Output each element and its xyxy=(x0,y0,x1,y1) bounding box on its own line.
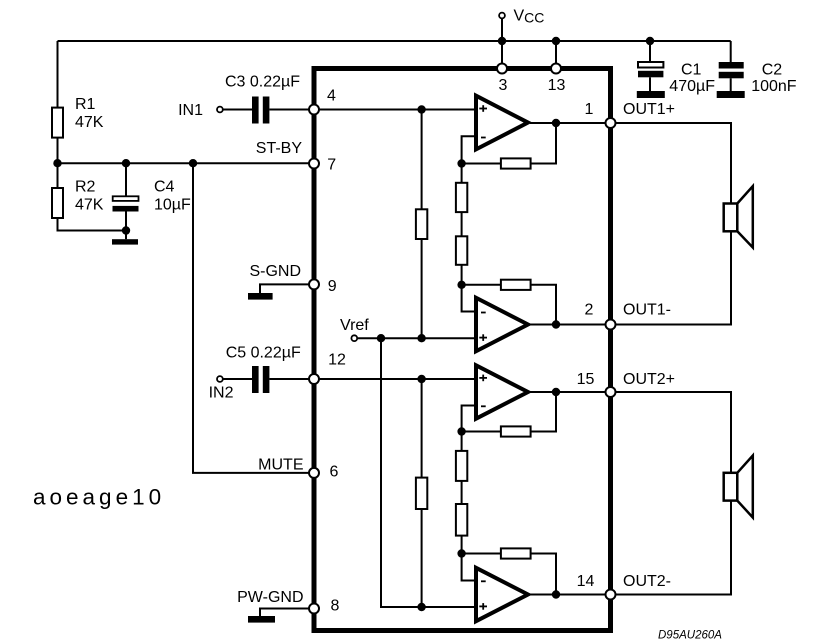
internal resistor (divider upper) xyxy=(456,183,467,212)
junction xyxy=(377,334,385,342)
wire: bias branch to Vref line xyxy=(421,509,423,607)
wire: Vref rail down to op-amp 4 + input xyxy=(381,338,476,607)
wire: node to feedback resistor xyxy=(462,553,501,555)
IN2 terminal xyxy=(217,376,223,382)
svg-text:MUTE: MUTE xyxy=(258,457,303,474)
wire: top supply rail xyxy=(58,40,731,42)
wire: op-amp 3 output to pin 15 xyxy=(530,391,606,393)
svg-text:9: 9 xyxy=(328,278,337,295)
ground xyxy=(717,91,745,98)
pin 7 xyxy=(309,157,336,174)
svg-text:C2: C2 xyxy=(762,62,783,79)
wire: pin 12 to op-amp 3 + input xyxy=(319,378,476,380)
svg-text:15: 15 xyxy=(577,371,595,388)
wire: MUTE net from ST-BY line junction to pin 6 xyxy=(193,163,309,473)
junction xyxy=(417,603,425,611)
svg-text:IN2: IN2 xyxy=(209,385,234,402)
svg-text:13: 13 xyxy=(548,77,566,94)
junction xyxy=(189,159,197,167)
internal resistor (divider lower) xyxy=(456,504,467,536)
wire: rail to pin 3 xyxy=(501,41,503,64)
pin 12 xyxy=(309,352,346,385)
wire: feedback resistor to - node xyxy=(462,163,501,165)
op-amp 4 xyxy=(476,568,528,621)
junction xyxy=(417,334,425,342)
wire: feedback resistor to op-amp 4 output xyxy=(531,554,556,595)
svg-text:OUT2-: OUT2- xyxy=(623,573,671,590)
op-amp 1 xyxy=(476,96,528,150)
wire: op-amp 1 output to pin 1 xyxy=(530,122,606,124)
wire: node to feedback resistor xyxy=(462,284,501,286)
junction xyxy=(457,549,465,557)
svg-text:ST-BY: ST-BY xyxy=(256,140,303,157)
ground xyxy=(112,239,138,244)
wire: IN2 to C5 xyxy=(223,378,252,380)
wire: R1 to ST-BY node xyxy=(57,138,59,164)
resistor R2 xyxy=(52,163,104,218)
svg-text:C1: C1 xyxy=(681,62,702,79)
svg-text:4: 4 xyxy=(327,88,336,105)
wire: input 1 bias branch top xyxy=(421,110,423,210)
junction xyxy=(457,427,465,435)
junction xyxy=(646,37,654,45)
junction xyxy=(552,119,560,127)
internal feedback resistor (op-amp 2) xyxy=(501,280,531,290)
wire: feedback resistor to op-amp 2 output xyxy=(531,285,556,325)
capacitor C2 xyxy=(719,41,797,95)
wire: IN1 to C3 xyxy=(223,109,252,111)
wire: rail down to R1 xyxy=(57,41,59,108)
op-amp 3 xyxy=(476,365,528,418)
wire: pin 1 to speaker 1 top xyxy=(615,123,731,204)
svg-text:C5 0.22µF: C5 0.22µF xyxy=(226,345,301,362)
svg-text:100nF: 100nF xyxy=(751,78,797,95)
junction xyxy=(122,159,130,167)
pin 1 xyxy=(585,101,616,128)
ground xyxy=(637,91,665,98)
pin 4 xyxy=(309,88,336,115)
capacitor C3 xyxy=(225,74,300,124)
wire: op-amp 1 - input to feedback node xyxy=(462,136,476,163)
junction xyxy=(53,159,61,167)
wire: pin 4 to op-amp 1 + input xyxy=(319,109,476,111)
wire: gain divider upper (channel 2) xyxy=(461,432,463,451)
speaker LS2 xyxy=(724,456,753,518)
op-amp 2 xyxy=(476,298,528,352)
svg-text:14: 14 xyxy=(577,573,595,590)
svg-text:10µF: 10µF xyxy=(154,197,191,214)
capacitor C4 xyxy=(113,163,192,239)
wire: speaker 2 bottom to pin 14 xyxy=(615,501,731,595)
wire: bias branch to Vref line xyxy=(421,239,423,338)
svg-text:R2: R2 xyxy=(75,179,96,196)
speaker LS1 xyxy=(724,186,753,247)
wire: op-amp 4 output to pin 14 xyxy=(530,594,606,596)
junction xyxy=(552,388,560,396)
pin 14 xyxy=(577,573,616,600)
wire: gain divider upper xyxy=(461,164,463,183)
wire: op-amp 3 - input to feedback node xyxy=(462,406,476,432)
pin 8 xyxy=(309,598,340,615)
pin 9 xyxy=(309,278,337,295)
wire: ST-BY line to pin 7 xyxy=(58,162,310,164)
svg-text:IN1: IN1 xyxy=(178,102,203,119)
svg-text:3: 3 xyxy=(499,77,508,94)
wire: pin 9 to signal ground xyxy=(260,284,310,293)
wire: op-amp 2 output to pin 2 xyxy=(530,324,606,326)
wire: rail to pin 13 xyxy=(555,41,557,64)
IN1 terminal xyxy=(217,107,223,113)
svg-text:6: 6 xyxy=(330,464,339,481)
wire: output down to feedback resistor xyxy=(531,392,556,432)
svg-text:1: 1 xyxy=(585,101,594,118)
pin 13 xyxy=(548,64,566,95)
wire xyxy=(461,212,463,236)
svg-text:12: 12 xyxy=(328,352,346,369)
wire: node down to op-amp 4 - input xyxy=(462,554,476,581)
wire: node down to op-amp 2 - input xyxy=(462,285,476,312)
wire: feedback resistor to - node xyxy=(462,431,501,433)
capacitor C1 xyxy=(638,41,715,95)
wire xyxy=(461,481,463,504)
junction xyxy=(122,226,130,234)
junction xyxy=(552,37,560,45)
IC body (amplifier block) xyxy=(314,69,611,631)
svg-text:7: 7 xyxy=(327,157,336,174)
wire xyxy=(461,536,463,554)
internal feedback resistor (op-amp 1) xyxy=(501,158,531,168)
wire: output down to feedback resistor xyxy=(531,123,556,164)
internal resistor (divider lower) xyxy=(456,236,467,264)
svg-text:PW-GND: PW-GND xyxy=(237,589,303,606)
svg-text:S-GND: S-GND xyxy=(249,263,301,280)
pin 2 xyxy=(585,302,616,330)
internal resistor (divider upper) xyxy=(456,451,467,481)
svg-text:C3 0.22µF: C3 0.22µF xyxy=(225,74,300,91)
wire: speaker 1 bottom to pin 2 xyxy=(615,231,731,324)
wire: C5 to pin 12 xyxy=(269,378,309,380)
junction xyxy=(417,375,425,383)
svg-text:47K: 47K xyxy=(75,114,104,131)
svg-text:C4: C4 xyxy=(154,179,175,196)
svg-text:Vref: Vref xyxy=(340,317,369,334)
svg-text:OUT1+: OUT1+ xyxy=(623,101,675,118)
svg-text:VCC: VCC xyxy=(514,8,545,26)
pin 15 xyxy=(577,371,616,397)
svg-text:47K: 47K xyxy=(75,197,104,214)
svg-text:aoeage10: aoeage10 xyxy=(33,485,165,510)
junction xyxy=(552,320,560,328)
junction xyxy=(498,37,506,45)
svg-text:2: 2 xyxy=(585,302,594,319)
ground PW-GND xyxy=(237,589,303,623)
pin 3 xyxy=(497,64,508,95)
VCC terminal xyxy=(499,8,544,26)
junction xyxy=(457,281,465,289)
junction xyxy=(417,105,425,113)
pin 6 xyxy=(309,464,339,481)
wire: Vref to op-amp 2 + input xyxy=(358,337,476,339)
node Vref xyxy=(340,317,369,341)
wire: R2 bottom to C4 bottom xyxy=(58,218,127,231)
ground S-GND xyxy=(248,263,301,300)
svg-text:8: 8 xyxy=(331,598,340,615)
internal resistor (IN2 to Vref) xyxy=(416,478,427,509)
svg-text:470µF: 470µF xyxy=(669,78,715,95)
svg-text:OUT1-: OUT1- xyxy=(623,302,671,319)
junction xyxy=(457,159,465,167)
junction xyxy=(552,590,560,598)
internal feedback resistor (op-amp 3) xyxy=(501,426,531,436)
svg-text:R1: R1 xyxy=(75,96,96,113)
wire: VCC terminal to rail xyxy=(501,19,503,41)
wire: pin 8 to power ground xyxy=(260,609,310,617)
wire xyxy=(461,265,463,285)
wire: pin 15 to speaker 2 top xyxy=(615,392,731,473)
wire: C3 to pin 4 xyxy=(269,109,309,111)
resistor R1 xyxy=(52,96,104,138)
capacitor C5 xyxy=(226,345,301,394)
svg-text:D95AU260A: D95AU260A xyxy=(658,630,722,639)
internal resistor (IN1 to Vref) xyxy=(416,209,427,239)
internal feedback resistor (op-amp 4) xyxy=(501,548,531,558)
wire: input 2 bias branch top xyxy=(421,379,423,478)
svg-text:OUT2+: OUT2+ xyxy=(623,371,675,388)
